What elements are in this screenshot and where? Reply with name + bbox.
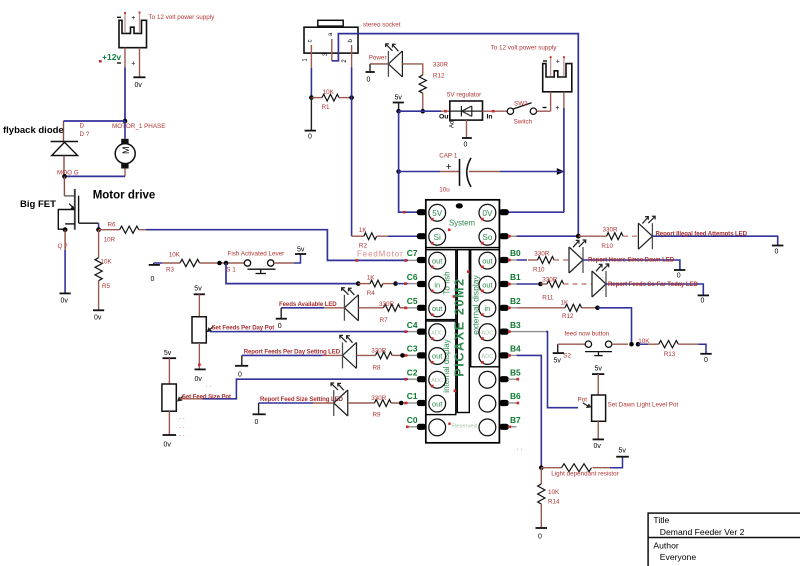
- svg-text:To 12 volt power supply: To 12 volt power supply: [491, 44, 558, 51]
- svg-text:0v: 0v: [195, 376, 203, 383]
- ground 0 left of power LED: [366, 71, 375, 73]
- node LDR junction: [539, 465, 544, 470]
- svg-text:R9: R9: [373, 412, 382, 419]
- node MOTOR_1 PHASE junction: [123, 119, 128, 124]
- resistor R14 10K: [540, 468, 542, 484]
- wire MOO G to FET drain: [63, 176, 65, 196]
- svg-text:Power: Power: [369, 54, 387, 61]
- ground 0 for D7: [674, 269, 685, 271]
- svg-text:10K: 10K: [638, 338, 650, 345]
- svg-text:0: 0: [677, 273, 681, 280]
- wire J2 pin1 to switch: [550, 92, 552, 111]
- op-amp U1 PICAXE 20M2 body: [426, 200, 500, 443]
- svg-text:R1: R1: [322, 104, 331, 111]
- wire 5v junction to regulator Out: [399, 110, 441, 112]
- supply 5v at LDR: [616, 456, 629, 458]
- svg-text:5v: 5v: [395, 95, 403, 102]
- svg-text:0: 0: [464, 142, 468, 149]
- wire LED D8 to ground: [606, 284, 703, 295]
- svg-text:B4: B4: [510, 344, 521, 354]
- wire B2 to button row: [598, 308, 632, 344]
- ground 0 for D8: [698, 294, 709, 296]
- svg-text:R11: R11: [542, 294, 554, 301]
- wire 5v rail down to chip 5V pin: [399, 172, 418, 213]
- wire +12v junction to motor top: [124, 121, 126, 139]
- wire socket pin b down to Si row: [351, 45, 353, 67]
- wire regulator In to switch: [483, 110, 508, 112]
- wire B1 row: [510, 283, 517, 285]
- wire capacitor to 0V vertical: [469, 171, 500, 173]
- svg-text:5v: 5v: [554, 357, 562, 364]
- svg-text:C7: C7: [407, 248, 418, 258]
- svg-text:Title: Title: [653, 515, 669, 525]
- svg-text:Si: Si: [434, 233, 441, 242]
- node lever junctions: [217, 261, 222, 266]
- svg-text:C1: C1: [407, 391, 418, 401]
- node button junctions: [629, 342, 634, 347]
- node arrow junction at capacitor/0V: [557, 168, 565, 175]
- svg-text:S2: S2: [563, 352, 571, 359]
- U1 PICAXE 20M2 box: [457, 250, 469, 413]
- svg-text:. .: . .: [517, 445, 523, 452]
- wire socket pin c down: [310, 45, 312, 68]
- resistor R2 1K (serial in): [352, 235, 364, 237]
- svg-text:0v: 0v: [135, 82, 143, 89]
- supply 5v at S1: [295, 253, 306, 255]
- svg-text:0: 0: [151, 276, 155, 283]
- svg-text:+: +: [555, 105, 559, 112]
- wire J1 pin2 to ground: [139, 48, 141, 77]
- svg-text:0v: 0v: [61, 298, 69, 305]
- U1 pin stubs left: [417, 209, 426, 430]
- svg-text:C3: C3: [407, 344, 418, 354]
- resistor R5 10K (gate pulldown): [98, 230, 100, 258]
- wire LED D6 to ground: [652, 236, 777, 245]
- wire J1 pin1 to +12v rail: [124, 48, 126, 68]
- wire ground to C1 LED: [259, 402, 313, 404]
- ground 0v under VR1: [195, 368, 206, 370]
- wire B2 row: [510, 307, 517, 309]
- svg-text:B0: B0: [510, 248, 521, 258]
- title block: [648, 513, 800, 566]
- wire junction to flyback diode: [64, 120, 126, 122]
- svg-text:5V regulator: 5V regulator: [447, 92, 481, 99]
- ground 0 under socket: [305, 130, 316, 132]
- svg-text:0: 0: [238, 372, 242, 379]
- resistor R13 10K: [638, 343, 648, 345]
- switch S1 Fish Activated Lever: [244, 260, 250, 266]
- svg-text:R10: R10: [601, 243, 613, 250]
- svg-text:Report Illegal feed Attempts L: Report Illegal feed Attempts LED: [656, 231, 748, 238]
- wire connector J1 prong 1: [124, 13, 126, 33]
- svg-text:SW3: SW3: [514, 100, 528, 107]
- svg-text:Pot: Pot: [578, 396, 588, 403]
- wire pin c to ground: [310, 98, 312, 131]
- wire B7 stub: [508, 426, 517, 428]
- svg-text:Report Hours Since Dawn LED: Report Hours Since Dawn LED: [588, 257, 675, 264]
- svg-text:0: 0: [255, 419, 259, 426]
- svg-text:R7: R7: [380, 317, 389, 324]
- power connector J2 (12V battery clip): [543, 64, 572, 92]
- svg-text:R12: R12: [562, 313, 574, 320]
- power connector J1 (12V battery clip): [119, 20, 147, 47]
- svg-text:ADC: ADC: [431, 330, 443, 336]
- svg-text:Everyone: Everyone: [660, 552, 697, 562]
- resistor R9b 330R (illegal feed LED): [578, 235, 606, 237]
- U1 To fish box: [426, 250, 456, 320]
- U1 pin inner labels: [432, 209, 493, 242]
- node R1 right junction: [349, 95, 354, 100]
- svg-text:B3: B3: [510, 320, 521, 330]
- wire B5 stub: [508, 378, 517, 380]
- node FET source junction: [96, 227, 101, 232]
- ground 0 for C5 LED: [276, 318, 287, 320]
- svg-text:C6: C6: [407, 272, 418, 282]
- svg-text:B7: B7: [510, 415, 521, 425]
- svg-text:C5: C5: [407, 296, 418, 306]
- svg-text:in: in: [485, 304, 491, 313]
- svg-text:in: in: [434, 280, 440, 289]
- node 5v junction: [396, 109, 401, 114]
- svg-text:ADC: ADC: [481, 330, 493, 336]
- svg-text:0: 0: [367, 77, 371, 84]
- node B2 junction: [595, 306, 600, 311]
- svg-text:ADC: ADC: [431, 378, 443, 384]
- svg-text:out: out: [482, 280, 492, 289]
- wire ground to C5 LED: [281, 307, 324, 309]
- LED D7 Report Hours Since Dawn: [569, 240, 586, 273]
- resistor R12 1K: [565, 304, 582, 311]
- svg-text:0: 0: [278, 323, 282, 330]
- wire socket pin a (tip): [331, 39, 333, 61]
- svg-text:C0: C0: [407, 415, 418, 425]
- svg-text:B5: B5: [510, 367, 521, 377]
- wire switch to connector J2: [537, 110, 551, 112]
- ground 0v under FET gate: [60, 292, 71, 294]
- ground 0v under VR2: [163, 434, 177, 436]
- svg-text:To 12 volt power supply: To 12 volt power supply: [149, 14, 216, 21]
- svg-text:Set Feeds Per Day Pot: Set Feeds Per Day Pot: [212, 325, 275, 332]
- svg-text:0v: 0v: [94, 315, 102, 322]
- svg-text:R3: R3: [166, 267, 175, 274]
- wire J2 pin2 down to 0V net: [563, 92, 565, 108]
- svg-text:out: out: [432, 352, 442, 361]
- wire motor bottom to MOO G: [124, 169, 126, 177]
- svg-text:CAP 1: CAP 1: [439, 153, 458, 160]
- ground 0v under J1: [133, 76, 145, 78]
- resistor R9 330R: [348, 402, 375, 404]
- ground 0 under regulator: [462, 137, 472, 139]
- svg-text:MOO G: MOO G: [57, 170, 79, 177]
- svg-text:out: out: [432, 304, 442, 313]
- wire gate junction down: [64, 230, 66, 250]
- LED D6 Report Illegal feed Attempts: [638, 216, 655, 249]
- wire regulator Adj to ground: [466, 120, 468, 138]
- ground 0 under R14: [536, 527, 548, 529]
- svg-text:ADC: ADC: [481, 354, 493, 360]
- svg-text:0: 0: [308, 133, 312, 140]
- wire B3 to VR3 wiper: [510, 331, 546, 333]
- svg-text:+: +: [131, 15, 135, 22]
- wire LED D7 to ground: [583, 260, 680, 270]
- svg-text:C4: C4: [407, 320, 418, 330]
- wire So row to R9b: [510, 235, 517, 237]
- wire R6 to C7 FeedMotor: [146, 230, 408, 261]
- svg-text:10K: 10K: [548, 489, 560, 496]
- resistor R7 330R: [358, 307, 383, 309]
- svg-text:10K: 10K: [323, 89, 335, 96]
- svg-text:5v: 5v: [619, 448, 627, 455]
- svg-text:+: +: [446, 161, 452, 173]
- wire 0V row to chip: [508, 211, 564, 213]
- LED D5 Report Feed Size Setting: [331, 383, 348, 416]
- svg-text:feed now button: feed now button: [565, 331, 610, 338]
- svg-text:0: 0: [538, 534, 542, 541]
- svg-text:. .: . .: [179, 423, 185, 430]
- wire S1 to 5v: [274, 262, 294, 264]
- svg-text:B6: B6: [510, 391, 521, 401]
- svg-text:Big FET: Big FET: [20, 199, 56, 210]
- U1 System box: [426, 200, 500, 248]
- ground 0v under VR3: [593, 438, 604, 440]
- resistor R6 10R (motor sense): [99, 229, 120, 231]
- node R15/5v junction: [420, 109, 425, 114]
- switch S2 feed now button: [558, 343, 586, 345]
- ground 0v under R5: [93, 309, 104, 311]
- svg-text:S 1: S 1: [226, 266, 236, 273]
- wire button to R13: [612, 343, 628, 345]
- svg-text:R4: R4: [367, 290, 376, 297]
- LED D4 Report Feeds Per Day Setting: [340, 335, 357, 368]
- svg-text:out: out: [482, 256, 492, 265]
- svg-text:330R: 330R: [433, 61, 449, 68]
- wire LED to R15: [402, 64, 422, 75]
- supply 5v at feed button: [553, 352, 564, 354]
- resistor R11 330R: [541, 283, 548, 285]
- ground 0 for R13: [700, 353, 711, 355]
- svg-text:Reserved: Reserved: [452, 423, 477, 429]
- svg-text:D: D: [80, 123, 85, 130]
- svg-text:Report Feed Size Setting LED: Report Feed Size Setting LED: [260, 396, 344, 403]
- svg-text:330R: 330R: [534, 251, 550, 258]
- LDR light dependent resistor: [541, 467, 561, 469]
- svg-text:Light dependant resistor: Light dependant resistor: [551, 471, 619, 478]
- svg-text:5v: 5v: [297, 247, 305, 254]
- svg-text:Feeds Available LED: Feeds Available LED: [279, 301, 337, 308]
- wire diode to MOO G node: [63, 156, 65, 177]
- svg-text:R12: R12: [433, 72, 445, 79]
- motor M1: [121, 139, 128, 144]
- svg-text:R5: R5: [102, 283, 111, 290]
- svg-text:FeedMotor: FeedMotor: [357, 250, 404, 259]
- svg-text:So: So: [482, 233, 492, 242]
- svg-text:330R: 330R: [542, 277, 558, 284]
- wire B4 down to LDR: [510, 354, 517, 356]
- stereo socket CT1: [318, 20, 343, 26]
- svg-text:B2: B2: [510, 296, 521, 306]
- resistor R15 330R (power LED): [419, 75, 426, 93]
- resistor R8 330R: [357, 354, 376, 356]
- LED D2 Power: [386, 44, 403, 77]
- svg-text:10R: 10R: [104, 237, 116, 244]
- svg-text:Author: Author: [653, 540, 678, 550]
- node R4 left junction: [356, 281, 361, 286]
- svg-text:0v: 0v: [164, 442, 172, 449]
- wire VR2 wiper to C2: [178, 396, 184, 401]
- capacitor CAP 1 10u: [396, 169, 401, 174]
- svg-text:Switch: Switch: [514, 119, 533, 126]
- svg-text:5v: 5v: [194, 286, 202, 293]
- U1 pin circles right column: [479, 204, 496, 435]
- ground 0 for D6: [772, 245, 784, 247]
- svg-text:D ?: D ?: [80, 131, 90, 138]
- svg-text:1K: 1K: [561, 299, 570, 306]
- svg-text:10K: 10K: [169, 252, 181, 259]
- svg-text:+: +: [131, 61, 135, 68]
- wire ground to C3 LED: [242, 354, 323, 356]
- svg-text:Fish Activated Lever: Fish Activated Lever: [228, 251, 285, 258]
- svg-text:Set Dawn Light Level Pot: Set Dawn Light Level Pot: [608, 401, 679, 408]
- svg-text:stereo socket: stereo socket: [363, 22, 401, 29]
- svg-text:1K: 1K: [359, 227, 368, 234]
- svg-text:330R: 330R: [371, 348, 387, 355]
- svg-text:5v: 5v: [164, 350, 172, 357]
- svg-text:Q ?: Q ?: [58, 243, 69, 250]
- wire +12v rail down to motor: [124, 67, 126, 121]
- wire VR1 wiper to C4: [208, 326, 214, 331]
- U1 internal display box: [426, 321, 456, 415]
- svg-text:1K: 1K: [367, 275, 376, 282]
- svg-text:+: +: [556, 59, 560, 66]
- svg-text:MOTOR_1 PHASE: MOTOR_1 PHASE: [112, 123, 165, 130]
- svg-text:0: 0: [701, 298, 705, 305]
- svg-text:Motor drive: Motor drive: [93, 190, 156, 202]
- svg-text:C2: C2: [407, 367, 418, 377]
- svg-text:out: out: [432, 256, 442, 265]
- U1 outside pin names: [407, 248, 418, 425]
- svg-text:10u: 10u: [439, 187, 450, 194]
- wire connector J2 prong 2: [563, 57, 565, 76]
- svg-text:. .: . .: [206, 382, 212, 389]
- ground 0 for C3 LED: [235, 365, 248, 367]
- svg-text:R14: R14: [548, 499, 560, 506]
- svg-text:Adj: Adj: [450, 119, 456, 128]
- U1 pin circles left column: [429, 204, 446, 435]
- svg-text:c: c: [308, 40, 314, 43]
- switch SW3: [507, 108, 513, 114]
- node FET gate junction: [63, 227, 68, 232]
- node B1 junction: [538, 282, 543, 287]
- wire B6 stub: [508, 402, 517, 404]
- LED D3 Feeds Available: [342, 288, 359, 321]
- svg-text:Report Feeds Per Day Setting L: Report Feeds Per Day Setting LED: [244, 348, 341, 355]
- svg-text:10K: 10K: [101, 259, 113, 266]
- wire C0 stub: [409, 426, 418, 428]
- transistor Q1 Big FET: [58, 189, 98, 230]
- svg-text:R6: R6: [108, 222, 117, 229]
- U1 Reserved label: [448, 423, 450, 425]
- node R1 left junction: [309, 95, 314, 100]
- svg-text:. .: . .: [179, 431, 185, 438]
- resistor R1 10K: [311, 97, 322, 99]
- wire ground to power LED: [370, 63, 389, 65]
- svg-text:5v: 5v: [595, 366, 603, 373]
- wire connector J1 prong 2: [139, 13, 141, 34]
- node So junction: [576, 234, 581, 239]
- svg-text:B1: B1: [510, 272, 521, 282]
- svg-text:330R: 330R: [379, 301, 395, 308]
- stray dots: [179, 414, 185, 438]
- U1 external display box: [471, 250, 500, 367]
- svg-text:out: out: [432, 399, 442, 408]
- svg-text:PICAXE 20M2: PICAXE 20M2: [452, 277, 466, 377]
- svg-text:. .: . .: [179, 414, 185, 421]
- svg-text:M: M: [121, 147, 131, 155]
- svg-text:Demand Feeder Ver 2: Demand Feeder Ver 2: [660, 527, 745, 537]
- svg-text:System: System: [449, 219, 475, 228]
- svg-text:Set Feed Size Pot: Set Feed Size Pot: [182, 393, 231, 400]
- wire lever junction down to C6 row: [226, 263, 356, 284]
- svg-text:0v: 0v: [594, 443, 602, 450]
- svg-text:R8: R8: [373, 365, 382, 372]
- svg-text:R10: R10: [533, 266, 545, 273]
- wire connector J2 prong 1: [550, 57, 552, 76]
- wire dashes to LED D6: [623, 235, 638, 237]
- svg-text:R2: R2: [359, 243, 368, 250]
- resistor R4 1K: [370, 280, 383, 287]
- svg-text:Report Feeds So Far Today LED: Report Feeds So Far Today LED: [608, 281, 698, 288]
- U1 pin stubs right: [499, 209, 508, 430]
- svg-text:330R: 330R: [603, 227, 619, 234]
- U1 pin red leg dots: [431, 218, 484, 388]
- ground 0 left of R3: [149, 264, 160, 266]
- svg-text:0: 0: [775, 249, 779, 256]
- ground 0 for C1 LED: [253, 413, 266, 415]
- svg-text:0: 0: [704, 357, 708, 364]
- svg-text:0V: 0V: [482, 209, 493, 218]
- svg-text:flyback diode: flyback diode: [3, 125, 64, 136]
- svg-text:R13: R13: [664, 351, 676, 358]
- svg-text:+12v: +12v: [102, 52, 121, 62]
- flyback diode D1: [51, 142, 78, 156]
- resistor R3 10K: [154, 262, 162, 264]
- svg-text:330R: 330R: [371, 395, 387, 402]
- LED D8 Report Feeds So Far Today: [592, 264, 609, 297]
- svg-text:In: In: [487, 113, 493, 120]
- wire FET source to node: [98, 223, 100, 230]
- svg-text:5V: 5V: [432, 209, 443, 218]
- resistor R10 330R (B0): [510, 259, 517, 261]
